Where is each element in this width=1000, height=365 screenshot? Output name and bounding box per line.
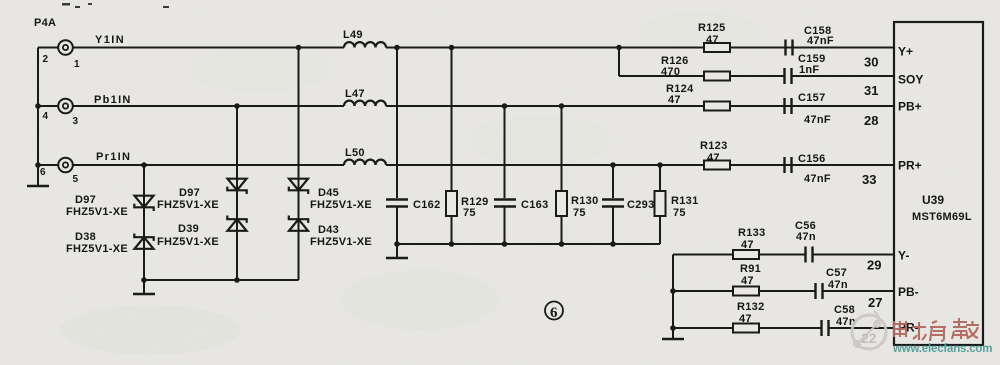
svg-text:FHZ5V1-XE: FHZ5V1-XE: [310, 199, 372, 211]
svg-text:L50: L50: [345, 147, 365, 159]
svg-text:2: 2: [43, 54, 49, 65]
svg-text:Y+: Y+: [898, 45, 913, 59]
svg-text:www.elecfans.com: www.elecfans.com: [892, 343, 992, 355]
svg-text:47: 47: [741, 239, 754, 251]
svg-text:C162: C162: [413, 199, 441, 211]
capacitor C162: [386, 200, 408, 207]
junction on left bus at J3: [35, 162, 41, 168]
svg-text:R133: R133: [738, 227, 766, 239]
svg-text:75: 75: [463, 207, 476, 219]
svg-text:31: 31: [864, 83, 878, 98]
resistor R130: [556, 191, 567, 216]
resistor R131: [655, 191, 666, 216]
svg-text:47: 47: [707, 152, 720, 164]
svg-text:SOY: SOY: [898, 73, 923, 87]
junction Pr / branch1: [141, 162, 147, 168]
wire branch 2 vertical (Pb clamp): [236, 106, 238, 280]
svg-text:Pr1IN: Pr1IN: [96, 151, 131, 163]
inductor L47: [344, 101, 386, 106]
zener D97 (Pb top): [227, 179, 246, 194]
inductor L50: [344, 160, 386, 165]
wire Y net: connector to L49: [73, 47, 344, 49]
svg-text:C293: C293: [627, 199, 655, 211]
ground (left bus): [27, 185, 49, 188]
svg-text:D97: D97: [75, 194, 96, 206]
junction Y/SOY takeoff: [616, 45, 622, 51]
resistor R91: [733, 287, 759, 296]
svg-text:D97: D97: [179, 187, 200, 199]
wire diode bottom rail: [144, 279, 299, 281]
svg-text:470: 470: [661, 66, 680, 78]
svg-text:R91: R91: [740, 263, 761, 275]
svg-text:47n: 47n: [828, 279, 848, 291]
zener D45 (Y top): [289, 179, 308, 194]
zener D39 (Pb bottom): [227, 216, 246, 231]
svg-text:1nF: 1nF: [799, 64, 819, 76]
resistor R124 (on Pb line): [704, 102, 730, 111]
wire Y net: L49 to IC: [386, 47, 894, 49]
capacitor C156: [785, 157, 792, 173]
svg-text:1: 1: [74, 59, 80, 70]
wire branch 3 vertical (Y clamp): [298, 48, 300, 281]
watermark text (red CJK-style marks): [893, 318, 979, 341]
wire C163 vertical from Pb: [504, 106, 506, 198]
svg-text:MST6M69L: MST6M69L: [912, 211, 972, 223]
svg-text:PR+: PR+: [898, 159, 922, 173]
svg-text:3: 3: [73, 116, 79, 127]
wire R129 vertical from Y: [451, 48, 453, 245]
watermark logo circle: [852, 311, 886, 349]
svg-text:D45: D45: [318, 187, 339, 199]
svg-text:47nF: 47nF: [804, 173, 831, 185]
svg-text:75: 75: [673, 207, 686, 219]
junction rail/C293: [610, 241, 616, 247]
svg-text:30: 30: [864, 55, 878, 70]
wire C58 to pin 26: [829, 327, 895, 329]
resistor R123 (on Pr line): [704, 161, 730, 170]
wire minus-side left rail: [672, 255, 674, 340]
wire Pb net: L47 to IC: [386, 105, 894, 107]
junction rail/C162: [394, 241, 400, 247]
svg-text:FHZ5V1-XE: FHZ5V1-XE: [66, 243, 128, 255]
svg-text:FHZ5V1-XE: FHZ5V1-XE: [310, 236, 372, 248]
zener D43 (Y bottom): [289, 216, 308, 231]
wire PR- line: [673, 327, 733, 329]
svg-text:P4A: P4A: [34, 17, 56, 29]
junction rail/branch1: [141, 277, 147, 283]
capacitor C157: [785, 98, 792, 114]
svg-text:PB+: PB+: [898, 100, 922, 114]
junction Pr/C293: [610, 162, 616, 168]
junction rail/C163: [502, 241, 508, 247]
zener D97 (Pr top): [134, 196, 153, 211]
node 6 (circled sheet reference): [545, 302, 563, 322]
svg-text:47: 47: [741, 275, 754, 287]
wire left vertical bus: [37, 48, 39, 187]
svg-text:27: 27: [868, 295, 882, 310]
svg-text:C163: C163: [521, 199, 549, 211]
capacitor C159: [785, 68, 792, 84]
wire R132 to C58: [759, 327, 821, 329]
capacitor C293: [602, 200, 624, 207]
wire ground drop branch1: [143, 280, 145, 294]
svg-text:6: 6: [550, 305, 558, 321]
svg-text:FHZ5V1-XE: FHZ5V1-XE: [157, 236, 219, 248]
inductor L49: [344, 42, 386, 47]
junction Y/R129: [449, 45, 455, 51]
svg-text:47nF: 47nF: [804, 114, 831, 126]
resistor R125 (on Y line): [704, 43, 730, 52]
svg-text:28: 28: [864, 113, 878, 128]
wire R133 to C56: [759, 254, 805, 256]
svg-text:Pb1IN: Pb1IN: [94, 94, 132, 106]
svg-text:47: 47: [706, 34, 719, 46]
wire C57 to pin 27: [823, 290, 895, 292]
svg-text:5: 5: [73, 174, 79, 185]
svg-text:R131: R131: [671, 195, 699, 207]
wire R91 to C57: [759, 290, 815, 292]
svg-text:D38: D38: [75, 231, 96, 243]
ground (minus rail): [662, 338, 684, 341]
junction rail/PB-: [670, 288, 676, 294]
capacitor C163: [494, 200, 516, 207]
resistor R129: [446, 191, 457, 216]
svg-text:R132: R132: [737, 301, 765, 313]
connector jack J2 (Pb1IN): [38, 99, 73, 114]
wire R131 vertical from Pr: [659, 165, 661, 244]
svg-text:C57: C57: [826, 267, 847, 279]
capacitor C57: [816, 283, 823, 299]
junction Pb/R130: [559, 103, 565, 109]
svg-text:75: 75: [573, 207, 586, 219]
svg-text:R125: R125: [698, 22, 726, 34]
junction Pb/C163: [502, 103, 508, 109]
svg-text:47n: 47n: [796, 231, 816, 243]
svg-text:29: 29: [867, 258, 881, 273]
wire branch 1 vertical (Pr clamp): [143, 165, 145, 280]
connector jack J1 (Y1IN): [38, 40, 73, 55]
wire C56 to pin 29: [813, 254, 895, 256]
junction rail/PR-: [670, 325, 676, 331]
resistor R126: [704, 72, 730, 81]
svg-text:U39: U39: [922, 193, 944, 207]
wire Pr net: connector to L50: [73, 164, 344, 166]
svg-text:C156: C156: [798, 153, 826, 165]
wire R130 vertical from Pb: [561, 106, 563, 244]
junction Y / branch3: [296, 45, 302, 51]
svg-text:4: 4: [43, 111, 49, 122]
resistor R133: [733, 250, 759, 259]
svg-text:PB-: PB-: [898, 285, 919, 299]
junction rail/R130: [559, 241, 565, 247]
svg-text:R130: R130: [571, 195, 599, 207]
svg-text:FHZ5V1-XE: FHZ5V1-XE: [66, 206, 128, 218]
svg-text:Y1IN: Y1IN: [95, 34, 125, 46]
svg-text:22: 22: [861, 330, 877, 346]
svg-text:L47: L47: [345, 88, 365, 100]
capacitor C56: [806, 247, 813, 263]
junction Y/C162: [394, 45, 400, 51]
svg-text:47: 47: [739, 313, 752, 325]
wire Y- line: [673, 254, 733, 256]
junction rail/R129: [449, 241, 455, 247]
junction rail/branch2: [234, 277, 240, 283]
svg-text:D39: D39: [178, 223, 199, 235]
wire ground drop RC rail: [396, 244, 398, 258]
wire C159 to pin 31: [792, 75, 895, 77]
svg-text:Y-: Y-: [898, 249, 909, 263]
svg-text:C58: C58: [834, 304, 855, 316]
wire SOY horizontal to R126: [619, 75, 704, 77]
wire PB- line: [673, 290, 733, 292]
capacitor C58: [822, 320, 829, 336]
wire SOY vertical: [618, 48, 620, 77]
svg-text:L49: L49: [343, 29, 363, 41]
wire C162 vertical from Y: [396, 48, 398, 199]
ground (diode rail): [133, 293, 155, 296]
svg-text:6: 6: [40, 167, 46, 178]
junction on left bus at J2: [35, 103, 41, 109]
svg-text:47: 47: [668, 94, 681, 106]
svg-text:C157: C157: [798, 92, 826, 104]
junction Pr/R131: [657, 162, 663, 168]
op-amp U39 IC box: [894, 22, 983, 345]
junction Pb / branch2: [234, 103, 240, 109]
ground (RC rail): [386, 257, 408, 260]
svg-text:D43: D43: [318, 224, 339, 236]
resistor R132: [733, 324, 759, 333]
zener D38 (Pr bottom): [134, 234, 153, 249]
wire Pr net: L50 to IC: [386, 164, 894, 166]
wire Pb net: connector to L47: [73, 105, 344, 107]
svg-text:R123: R123: [700, 140, 728, 152]
connector jack J3 (Pr1IN): [38, 158, 73, 173]
svg-text:33: 33: [862, 172, 876, 187]
svg-text:47nF: 47nF: [807, 35, 834, 47]
wire C293 vertical from Pr: [612, 165, 614, 198]
svg-text:FHZ5V1-XE: FHZ5V1-XE: [157, 199, 219, 211]
wire RC bottom rail: [397, 243, 660, 245]
capacitor C158: [786, 40, 793, 56]
wire R126 to C159: [730, 75, 784, 77]
